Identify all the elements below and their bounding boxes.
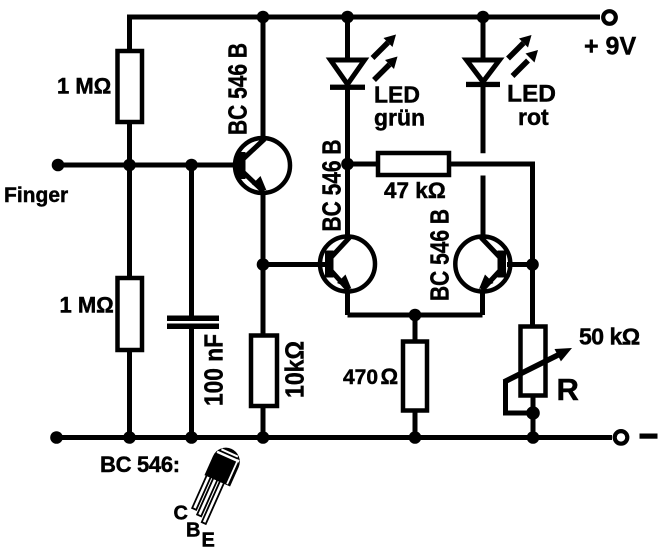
svg-text:Finger: Finger — [4, 184, 68, 207]
svg-text:BC 546 B: BC 546 B — [425, 209, 455, 301]
capacitor C1 100nF — [167, 316, 219, 330]
resistor 1M lower — [118, 278, 143, 350]
transistor Q3 BC546B mirrored — [455, 237, 510, 292]
wire wiper to bottom terminal — [506, 380, 534, 413]
wire T2 emitter down — [345, 290, 350, 315]
wire cap upper — [189, 165, 194, 316]
wire T3 emitter down — [480, 290, 485, 315]
resistor 10k — [251, 336, 277, 407]
node 10k/ground junction — [257, 431, 270, 444]
wire bottom ground rail — [57, 435, 613, 440]
wire T1 collector to rail — [261, 17, 266, 141]
node rail/LED green junction — [341, 11, 354, 24]
LED green diode symbol — [330, 60, 365, 90]
wire 47k left lead — [348, 162, 379, 167]
svg-text:R: R — [557, 372, 579, 407]
wire top supply rail — [127, 15, 600, 20]
svg-text:10kΩ: 10kΩ — [280, 341, 310, 398]
transistor Q2 BC546B — [320, 237, 375, 292]
svg-text:BC 546 B: BC 546 B — [317, 140, 347, 232]
node pot/wiper junction — [526, 406, 540, 420]
node finger/1M junction — [123, 159, 136, 172]
wire junction to 10k — [261, 265, 266, 336]
node pot/ground junction — [527, 431, 540, 444]
svg-text:100 nF: 100 nF — [199, 334, 229, 406]
svg-text:B: B — [186, 520, 200, 542]
wire LED red to crossing gap — [481, 87, 486, 153]
node 1M/ground junction — [123, 431, 136, 444]
node rail/LED red junction — [477, 11, 490, 24]
svg-text:BC 546 B: BC 546 B — [223, 43, 253, 135]
resistor 1M upper — [118, 51, 143, 122]
wire 1M lower to ground rail — [127, 350, 132, 438]
wire to 470 — [413, 315, 418, 342]
wire emitter join line — [348, 313, 483, 318]
LED red light arrows — [508, 35, 538, 76]
wire 47k right lead to corner — [449, 164, 533, 265]
node 47k/T3 base/pot junction — [526, 258, 539, 271]
wire T3 base to node — [507, 262, 534, 267]
wire finger line — [58, 163, 236, 168]
LED green light arrows — [373, 35, 398, 81]
LED red diode symbol — [466, 60, 500, 87]
wire resistor to finger line — [127, 122, 132, 167]
terminal finger — [52, 159, 65, 172]
transistor Q1 BC546B — [235, 138, 290, 193]
wire 470 to ground — [413, 411, 418, 438]
svg-text:rot: rot — [518, 104, 549, 130]
potentiometer wiper arrow — [504, 348, 572, 382]
svg-text:47 kΩ: 47 kΩ — [384, 178, 446, 203]
node finger/cap junction — [185, 159, 198, 172]
wire LED green to T2 collector — [345, 90, 350, 238]
svg-text:BC 546:: BC 546: — [100, 452, 180, 477]
node 470/ground junction — [409, 431, 422, 444]
node cap/ground junction — [185, 431, 198, 444]
wire cap lower — [189, 329, 194, 438]
node T1 emitter/10k/T2 base junction — [257, 258, 270, 271]
svg-text:+ 9V: + 9V — [584, 33, 636, 61]
svg-text:Ω: Ω — [381, 364, 399, 389]
resistor 470 — [403, 342, 427, 411]
svg-text:1 MΩ: 1 MΩ — [60, 293, 114, 318]
BC546 package drawing (TO-92) — [187, 443, 245, 527]
svg-text:E: E — [202, 530, 215, 552]
node emitters/470 junction — [409, 309, 422, 322]
svg-text:50 kΩ: 50 kΩ — [579, 324, 640, 350]
svg-text:1 MΩ: 1 MΩ — [57, 74, 111, 99]
svg-text:470: 470 — [343, 366, 378, 389]
wire pot bottom — [531, 396, 536, 438]
wire rail to LED red — [481, 17, 486, 62]
wire rail to LED green — [345, 17, 350, 62]
label minus — [640, 434, 658, 439]
wire T1 emitter down — [261, 191, 266, 265]
wire base node to pot — [530, 265, 535, 327]
wire left column upper — [127, 15, 132, 52]
wire 10k to ground — [261, 406, 266, 438]
node rail/T1 junction — [257, 11, 270, 24]
resistor 47k — [378, 153, 449, 175]
potentiometer R 50k body — [521, 327, 546, 396]
terminal ground right — [615, 431, 628, 444]
node 47k/LED green junction — [341, 158, 354, 171]
wire to T2 base — [263, 262, 326, 267]
terminal +9V — [603, 11, 616, 24]
wire left column lower — [127, 165, 132, 278]
wire crossing gap to T3 collector — [481, 176, 486, 238]
terminal ground left — [50, 431, 63, 444]
svg-text:grün: grün — [374, 105, 425, 131]
